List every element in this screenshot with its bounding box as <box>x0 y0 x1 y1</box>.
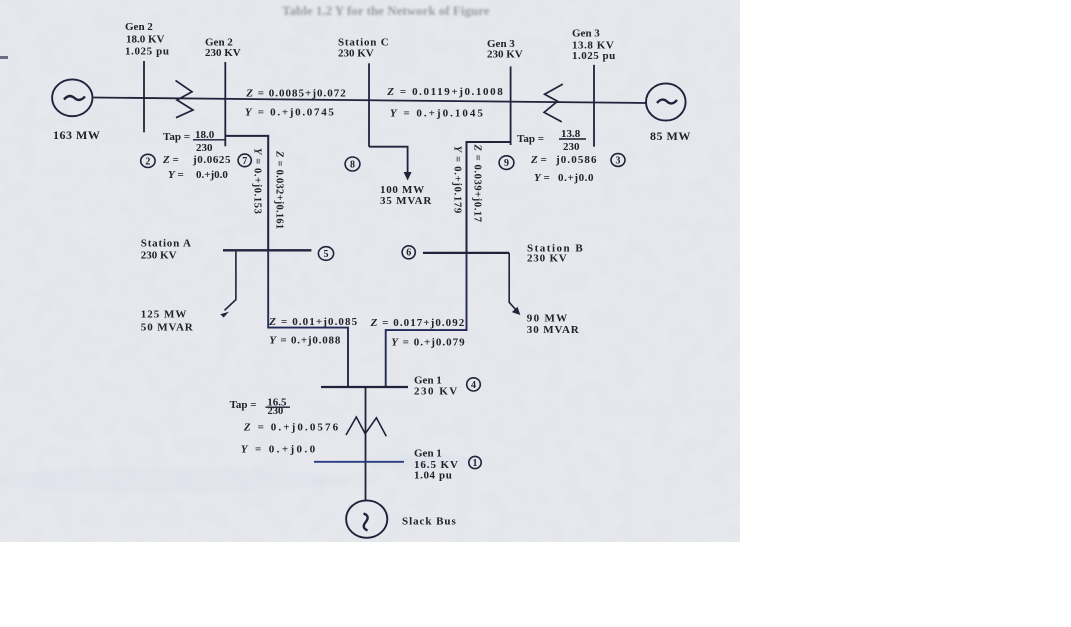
svg-text:Y = 0.+j0.179: Y = 0.+j0.179 <box>452 146 463 214</box>
wire: line 4-5 from bus 5 to bus 4 <box>268 250 348 387</box>
svg-text:0.+j0.0: 0.+j0.0 <box>196 169 228 181</box>
node 6 circled number <box>402 246 415 259</box>
bus 5 bar (Station A) <box>223 249 311 251</box>
svg-text:230 KV: 230 KV <box>338 48 374 60</box>
svg-text:230: 230 <box>196 142 213 154</box>
node 8 circled number <box>345 157 360 171</box>
svg-text:125 MW: 125 MW <box>141 309 188 321</box>
generator G2 <box>52 79 92 116</box>
svg-text:0.+j0.0: 0.+j0.0 <box>558 172 594 184</box>
node 4 circled number <box>467 378 481 391</box>
svg-text:Z = 0.0119+j0.1008: Z = 0.0119+j0.1008 <box>386 86 504 98</box>
svg-text:Gen 1: Gen 1 <box>414 448 442 460</box>
svg-text:Z = 0.+j0.0576: Z = 0.+j0.0576 <box>243 421 340 433</box>
svg-text:Z = 0.017+j0.092: Z = 0.017+j0.092 <box>370 317 466 329</box>
svg-text:230 KV: 230 KV <box>141 249 177 261</box>
svg-text:Z = 0.0085+j0.072: Z = 0.0085+j0.072 <box>245 88 346 100</box>
node 2 circled number <box>141 154 155 167</box>
transformer T2 <box>176 80 194 117</box>
svg-text:Station A: Station A <box>141 238 192 250</box>
wire: main transmission line bus 2 to bus 3 <box>94 98 647 104</box>
bus 3 bar (Gen 3 13.8 kV) <box>593 65 595 147</box>
bus 9 bar (Gen 3 230 kV) <box>510 66 512 145</box>
node 5 circled number <box>318 247 333 261</box>
bus 8 bar (Station C) <box>368 63 370 146</box>
fraction bar: T1 tap <box>266 406 291 408</box>
node 1 circled number <box>469 456 481 468</box>
transformer T3 <box>544 84 563 122</box>
svg-text:35 MVAR: 35 MVAR <box>380 195 432 207</box>
node 7 circled number <box>238 154 251 167</box>
bus 6 bar (Station B) <box>423 252 509 254</box>
svg-text:Y = 0.+j0.1045: Y = 0.+j0.1045 <box>390 108 485 120</box>
svg-text:230: 230 <box>563 141 580 153</box>
svg-text:Table 1.2 Y for the Netw: Table 1.2 Y for the Network of Figure <box>282 3 490 18</box>
svg-text:Gen 3: Gen 3 <box>572 28 600 40</box>
load B arrow at bus 6 <box>509 253 520 315</box>
svg-text:8: 8 <box>350 160 355 171</box>
svg-text:Gen 2: Gen 2 <box>125 21 153 33</box>
svg-text:13.8: 13.8 <box>561 128 581 140</box>
svg-text:90 MW: 90 MW <box>527 313 569 325</box>
svg-text:9: 9 <box>504 158 509 169</box>
svg-text:3: 3 <box>616 155 621 166</box>
fraction bar: T2 tap <box>193 139 226 141</box>
wire: line 5-7 from bus 7 tap to bus 5 <box>225 136 268 250</box>
svg-text:163 MW: 163 MW <box>53 128 100 142</box>
svg-text:Z = 0.032+j0.161: Z = 0.032+j0.161 <box>274 150 285 229</box>
bus 7 bar (Gen 2 230 kV) <box>224 62 226 146</box>
bus 1 bar (Gen 1 16.5 kV) <box>314 461 404 463</box>
bus 2 bar (Gen 2 18 kV) <box>143 61 145 132</box>
load A arrow at bus 5 <box>220 252 236 318</box>
svg-text:1.04 pu: 1.04 pu <box>414 470 452 482</box>
svg-text:30 MVAR: 30 MVAR <box>527 324 580 336</box>
svg-text:Tap =: Tap = <box>230 399 257 411</box>
svg-text:230 KV: 230 KV <box>527 253 568 265</box>
svg-text:230 KV: 230 KV <box>487 48 523 60</box>
svg-text:7: 7 <box>242 156 247 167</box>
svg-text:1.025 pu: 1.025 pu <box>125 46 170 58</box>
node 3 circled number <box>611 154 625 167</box>
svg-text:j0.0625: j0.0625 <box>192 154 231 166</box>
generator G3 <box>646 83 686 120</box>
svg-text:Y =: Y = <box>168 169 184 181</box>
svg-text:Z =: Z = <box>162 154 179 166</box>
svg-text:Y = 0.+j0.153: Y = 0.+j0.153 <box>252 148 263 214</box>
svg-text:Y = 0.+j0.0: Y = 0.+j0.0 <box>241 444 318 456</box>
svg-text:Y =: Y = <box>534 172 550 184</box>
svg-text:1.025 pu: 1.025 pu <box>572 50 616 62</box>
svg-text:5: 5 <box>324 249 329 260</box>
svg-text:Z =: Z = <box>530 154 547 166</box>
svg-text:6: 6 <box>406 248 411 259</box>
svg-text:Y = 0.+j0.079: Y = 0.+j0.079 <box>391 336 465 348</box>
wire: line 6-9 from bus 9 tap to bus 6 <box>467 142 511 253</box>
svg-text:Slack Bus: Slack Bus <box>402 516 457 528</box>
svg-text:j0.0586: j0.0586 <box>555 154 598 166</box>
svg-text:18.0: 18.0 <box>195 129 215 141</box>
svg-text:2: 2 <box>145 156 150 167</box>
svg-text:Tap =: Tap = <box>163 131 190 143</box>
svg-text:Tap =: Tap = <box>517 133 544 145</box>
fraction bar: T3 tap <box>559 138 586 140</box>
svg-text:230 KV: 230 KV <box>205 47 241 59</box>
slack bus generator G1 <box>346 500 387 537</box>
wire: line 4-6 from bus 6 to bus 4 <box>386 253 467 387</box>
svg-text:Z = 0.01+j0.085: Z = 0.01+j0.085 <box>268 316 358 328</box>
svg-text:100 MW: 100 MW <box>380 184 425 196</box>
wire: bus 4 to slack generator <box>365 387 367 501</box>
transformer T1 <box>346 417 386 436</box>
svg-text:18.0 KV: 18.0 KV <box>126 33 165 45</box>
node 9 circled number <box>499 156 514 170</box>
bus 4 bar (Gen 1 230 kV) <box>321 386 408 388</box>
svg-text:Z = 0.039+j0.17: Z = 0.039+j0.17 <box>472 144 483 223</box>
svg-text:230 KV: 230 KV <box>414 386 459 398</box>
svg-text:Y = 0.+j0.0745: Y = 0.+j0.0745 <box>245 106 336 118</box>
svg-text:85 MW: 85 MW <box>650 129 691 143</box>
svg-text:Y = 0.+j0.088: Y = 0.+j0.088 <box>269 334 341 346</box>
svg-text:1: 1 <box>473 458 478 469</box>
load C arrow at bus 8 <box>369 147 412 181</box>
svg-text:50 MVAR: 50 MVAR <box>141 322 194 334</box>
svg-text:4: 4 <box>471 380 476 391</box>
